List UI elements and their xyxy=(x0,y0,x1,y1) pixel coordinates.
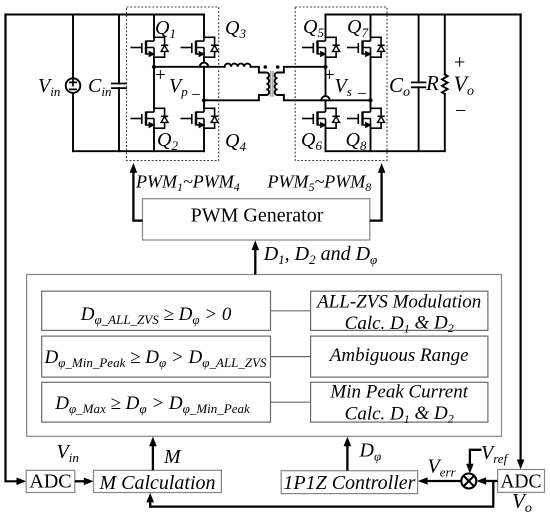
svg-text:Dφ: Dφ xyxy=(359,440,382,464)
transistor Q4 xyxy=(181,108,219,128)
svg-text:Q2: Q2 xyxy=(157,129,178,153)
1P1Z Controller box xyxy=(281,471,417,494)
wire: PWM Generator left output xyxy=(133,172,142,221)
wire: 1P1Z up to selector xyxy=(346,446,348,471)
svg-text:Q8: Q8 xyxy=(346,129,367,153)
svg-text:M: M xyxy=(163,446,182,468)
wire: summing junction to 1P1Z xyxy=(427,480,461,482)
svg-text:ALL-ZVS Modulation: ALL-ZVS Modulation xyxy=(315,292,481,313)
transistor Q8 xyxy=(347,108,385,128)
svg-text:Q7: Q7 xyxy=(347,16,368,40)
svg-text:−: − xyxy=(191,85,201,104)
svg-text:Dφ_Max ≥ Dφ > Dφ_Min_Peak: Dφ_Max ≥ Dφ > Dφ_Min_Peak xyxy=(54,393,250,416)
transformer primary winding xyxy=(266,73,269,96)
node B junction xyxy=(202,98,206,102)
secondary node + junction xyxy=(323,65,327,69)
transistor Q5 xyxy=(302,37,340,57)
svg-text:Vin: Vin xyxy=(57,441,79,465)
svg-text:R: R xyxy=(425,71,439,95)
svg-text:Q5: Q5 xyxy=(303,16,324,40)
wire: input top rail xyxy=(6,14,205,16)
transistor Q3 xyxy=(181,37,219,57)
wire: node A to transformer (through inductor) xyxy=(154,67,266,73)
svg-text:1P1Z Controller: 1P1Z Controller xyxy=(283,472,415,494)
svg-text:PWM5~PWM8: PWM5~PWM8 xyxy=(267,172,372,195)
dashed box secondary bridge xyxy=(295,7,387,161)
svg-text:Vref: Vref xyxy=(481,442,510,466)
transistor Q1 xyxy=(131,37,169,57)
result box 1 xyxy=(311,291,488,330)
summing junction xyxy=(461,474,476,489)
svg-text:PWM Generator: PWM Generator xyxy=(191,205,324,227)
arrowhead Vo feedback into M Calculation xyxy=(146,493,154,503)
svg-text:Dφ_Min_Peak ≥ Dφ > Dφ_ALL_ZVS: Dφ_Min_Peak ≥ Dφ > Dφ_ALL_ZVS xyxy=(43,347,267,370)
PWM Generator box xyxy=(143,199,370,240)
svg-text:ADC: ADC xyxy=(29,471,71,493)
capacitor Co xyxy=(418,15,420,152)
wire: ADC to M Calculation xyxy=(75,480,84,482)
arrowhead PWM right into bridge2 xyxy=(378,163,386,173)
svg-text:PWM1~PWM4: PWM1~PWM4 xyxy=(135,172,240,195)
wire: secondary bridge left leg with crossover hop xyxy=(325,15,327,152)
svg-text:Vs: Vs xyxy=(335,75,352,99)
wire: output bottom rail xyxy=(326,150,445,152)
connector row 2 xyxy=(271,356,311,358)
arrowhead ADC Vo to summing junction xyxy=(477,477,487,485)
transformer polarity dot primary xyxy=(264,65,268,69)
secondary node - junction xyxy=(368,98,372,102)
wire: M Calculation up to selector xyxy=(152,446,154,471)
wire: Vo sense line down right edge to ADC xyxy=(519,15,521,461)
result box 2 xyxy=(311,336,488,377)
svg-text:Cin: Cin xyxy=(88,75,111,99)
arrowhead Verr into 1P1Z xyxy=(418,477,428,485)
transistor Q7 xyxy=(347,37,385,57)
transformer core xyxy=(271,72,273,97)
result box 3 xyxy=(311,382,488,422)
wire: Vin sense line down left edge to ADC xyxy=(6,15,18,482)
wire: Vref elbow xyxy=(470,450,482,464)
ADC box (Vin) xyxy=(26,470,75,492)
svg-text:−: − xyxy=(455,100,466,122)
svg-text:+: + xyxy=(324,65,335,86)
wire: Vo feedback to M Calculation xyxy=(150,481,493,507)
wire: secondary top to bridge2 xyxy=(278,67,326,73)
svg-text:Q3: Q3 xyxy=(225,17,246,41)
svg-text:Vo: Vo xyxy=(512,489,532,516)
arrowhead PWM left into bridge1 xyxy=(130,163,138,173)
wire: ADC Vo to summing junction xyxy=(485,480,497,482)
wire: primary bridge right leg with crossover hop xyxy=(203,15,205,152)
arrowhead Vo sense into ADC xyxy=(517,460,525,470)
svg-text:Vo: Vo xyxy=(454,71,474,99)
svg-text:Co: Co xyxy=(389,73,410,100)
wire: input bottom rail xyxy=(73,150,204,152)
dashed box primary bridge xyxy=(127,7,219,161)
svg-text:D1, D2 and Dφ: D1, D2 and Dφ xyxy=(263,243,378,267)
voltage source Vin xyxy=(72,15,74,152)
svg-text:Min Peak Current: Min Peak Current xyxy=(329,382,468,403)
svg-text:+: + xyxy=(155,65,166,86)
condition box 2 xyxy=(42,336,271,377)
M Calculation box xyxy=(94,470,222,492)
transistor Q6 xyxy=(302,108,340,128)
wire: PWM Generator right output xyxy=(370,172,382,221)
svg-text:Dφ_ALL_ZVS ≥ Dφ > 0: Dφ_ALL_ZVS ≥ Dφ > 0 xyxy=(80,304,232,327)
svg-text:Q1: Q1 xyxy=(155,17,176,41)
inductor L xyxy=(225,64,251,67)
svg-text:Vp: Vp xyxy=(169,75,188,99)
connector row 1 xyxy=(271,310,311,312)
ADC box (Vo) xyxy=(498,470,545,493)
wire: node B to transformer primary bottom xyxy=(204,95,266,100)
wire: primary bridge left leg xyxy=(153,15,155,152)
svg-text:Q6: Q6 xyxy=(301,129,322,153)
transformer polarity dot secondary xyxy=(276,65,280,69)
wire: secondary bridge right leg xyxy=(370,15,372,152)
big selector box xyxy=(27,275,502,437)
transformer secondary winding xyxy=(275,73,278,96)
wire: secondary bottom to bridge2 xyxy=(278,95,371,100)
resistor R xyxy=(444,15,446,152)
arrowhead ADC to M Calculation xyxy=(84,478,94,486)
svg-text:Verr: Verr xyxy=(428,456,457,480)
node A junction xyxy=(152,65,156,69)
svg-text:Q4: Q4 xyxy=(225,130,246,154)
condition box 3 xyxy=(42,382,271,422)
svg-text:Calc. D1 & D2: Calc. D1 & D2 xyxy=(345,403,454,426)
capacitor Cin xyxy=(118,15,120,152)
svg-text:Vin: Vin xyxy=(38,75,60,99)
svg-text:M Calculation: M Calculation xyxy=(98,472,215,494)
connector row 3 xyxy=(271,401,311,403)
svg-text:−: − xyxy=(357,84,367,103)
condition box 1 xyxy=(42,291,271,330)
svg-text:Calc. D1 & D2: Calc. D1 & D2 xyxy=(345,313,454,336)
arrowhead Dphi into selector xyxy=(344,437,352,447)
svg-text:Ambiguous Range: Ambiguous Range xyxy=(328,345,469,366)
wire: output top rail xyxy=(326,14,521,16)
transistor Q2 xyxy=(131,108,169,128)
arrowhead Vref into summing junction xyxy=(466,464,474,474)
arrowhead into ADC Vin xyxy=(17,478,27,486)
arrowhead M into selector xyxy=(149,437,157,447)
arrowhead into PWM Generator xyxy=(252,240,260,250)
wire: selector up to PWM Generator xyxy=(254,250,256,275)
